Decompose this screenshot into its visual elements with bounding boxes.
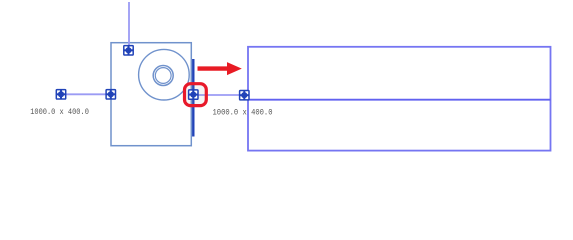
svg-text:1000.0 x 400.0: 1000.0 x 400.0 bbox=[213, 107, 273, 117]
svg-text:1000.0 x 400.0: 1000.0 x 400.0 bbox=[30, 107, 89, 117]
